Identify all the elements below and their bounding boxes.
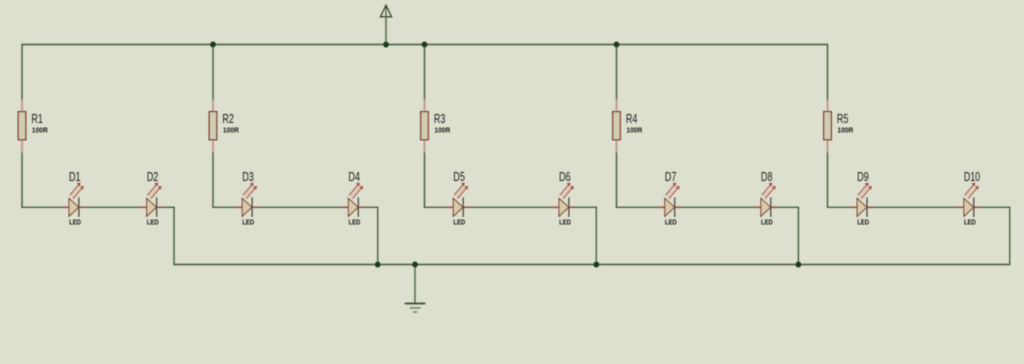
svg-text:D3: D3 bbox=[242, 169, 254, 184]
svg-text:LED: LED bbox=[665, 217, 677, 226]
svg-text:D10: D10 bbox=[964, 169, 980, 184]
svg-text:R5: R5 bbox=[837, 111, 849, 126]
svg-text:LED: LED bbox=[242, 217, 254, 226]
svg-text:D4: D4 bbox=[348, 169, 360, 184]
svg-text:LED: LED bbox=[349, 217, 361, 226]
svg-text:100R: 100R bbox=[32, 125, 49, 134]
svg-text:D7: D7 bbox=[665, 169, 677, 184]
svg-text:R3: R3 bbox=[434, 111, 446, 126]
svg-text:LED: LED bbox=[857, 217, 869, 226]
svg-text:R2: R2 bbox=[222, 111, 234, 126]
svg-text:LED: LED bbox=[964, 217, 976, 226]
svg-text:LED: LED bbox=[147, 217, 159, 226]
svg-text:100R: 100R bbox=[837, 125, 854, 134]
svg-text:R1: R1 bbox=[31, 111, 43, 126]
svg-text:LED: LED bbox=[761, 217, 773, 226]
svg-text:100R: 100R bbox=[223, 125, 240, 134]
svg-text:LED: LED bbox=[559, 217, 571, 226]
svg-text:100R: 100R bbox=[626, 125, 643, 134]
svg-text:LED: LED bbox=[453, 217, 465, 226]
svg-text:R4: R4 bbox=[626, 111, 638, 126]
svg-text:100R: 100R bbox=[434, 125, 451, 134]
svg-text:D5: D5 bbox=[453, 169, 465, 184]
svg-text:D8: D8 bbox=[761, 169, 773, 184]
svg-text:D9: D9 bbox=[857, 169, 869, 184]
svg-text:D1: D1 bbox=[69, 169, 81, 184]
svg-text:D6: D6 bbox=[559, 169, 571, 184]
svg-text:D2: D2 bbox=[147, 169, 159, 184]
svg-text:LED: LED bbox=[69, 217, 81, 226]
